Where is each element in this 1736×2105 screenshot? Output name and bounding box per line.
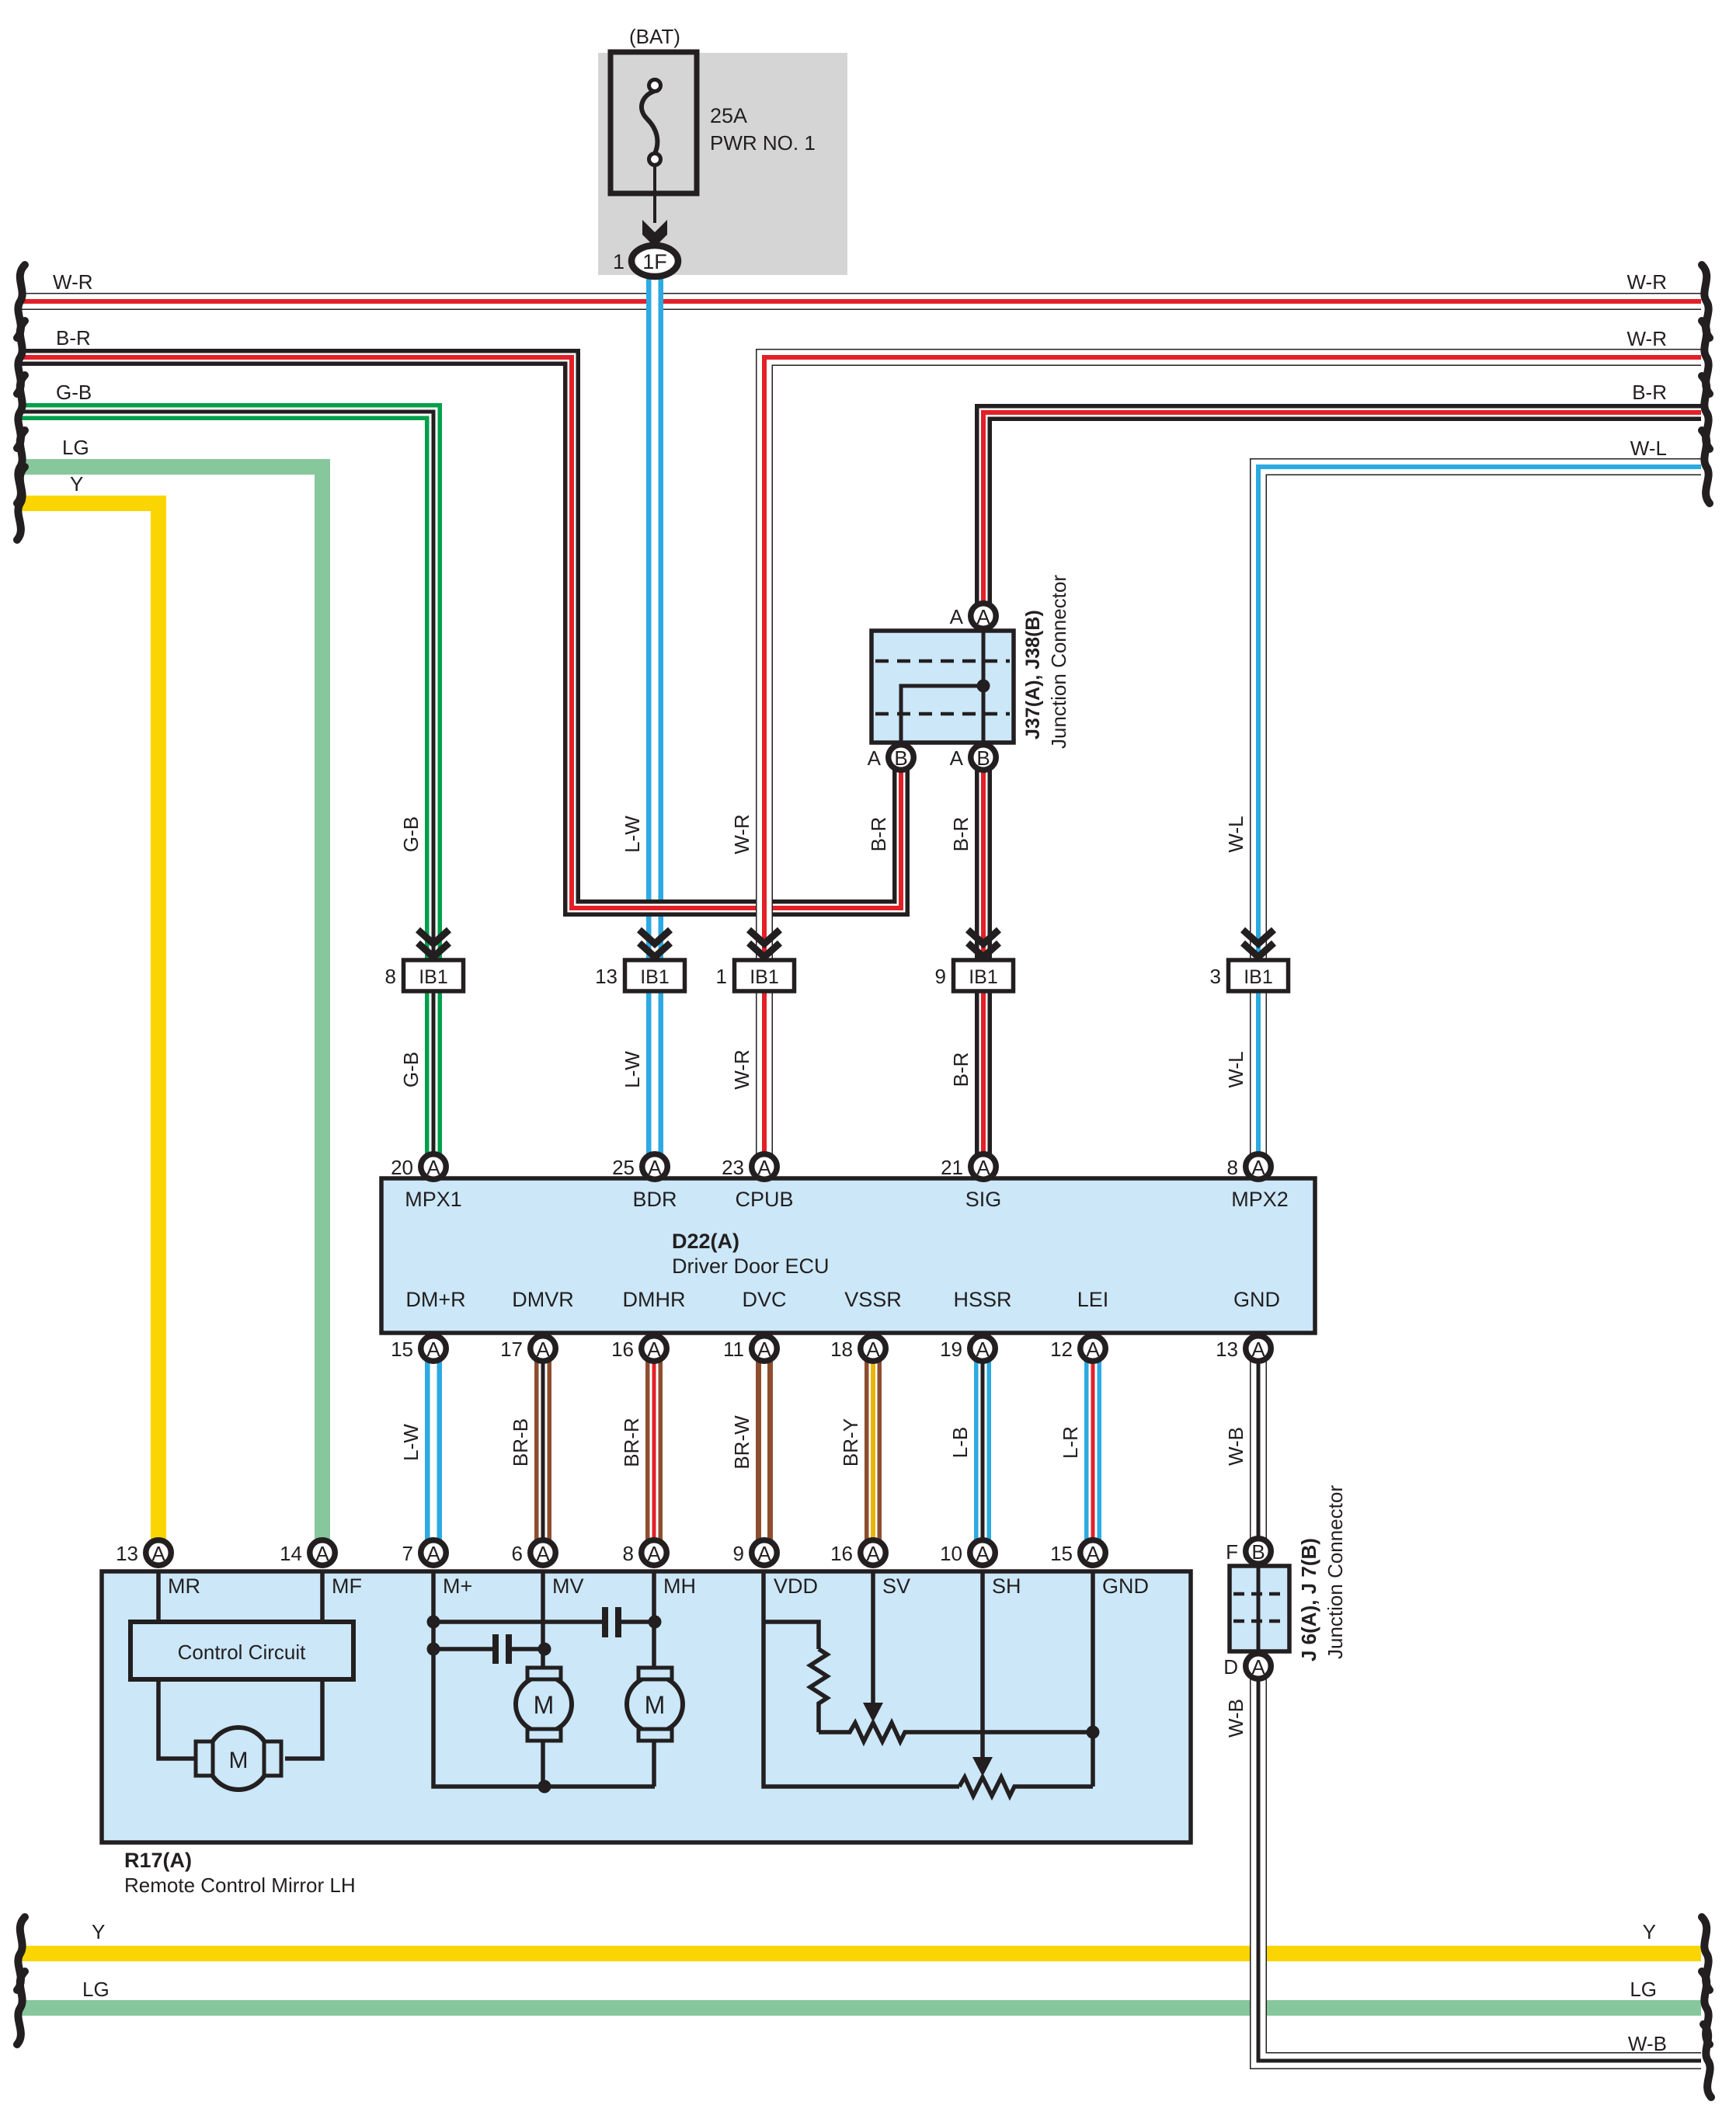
svg-text:9: 9 bbox=[935, 965, 946, 988]
svg-text:HSSR: HSSR bbox=[953, 1288, 1011, 1311]
wire SH with wiper arrow bbox=[972, 1571, 993, 1776]
svg-text:B-R: B-R bbox=[867, 817, 890, 852]
svg-text:B-R: B-R bbox=[949, 1052, 972, 1087]
svg-text:W-L: W-L bbox=[1224, 1051, 1247, 1087]
capacitor C1 (M+ to MH) bbox=[433, 1607, 655, 1637]
wire LG bottom bus bbox=[21, 2000, 1701, 2016]
svg-text:(BAT): (BAT) bbox=[629, 25, 680, 48]
svg-text:MPX2: MPX2 bbox=[1231, 1188, 1289, 1211]
chevron arrow into IB1 at x=1266 bbox=[968, 930, 999, 957]
svg-text:A: A bbox=[536, 1542, 550, 1565]
svg-text:A: A bbox=[1086, 1338, 1100, 1361]
svg-text:MPX1: MPX1 bbox=[405, 1188, 462, 1211]
svg-text:21: 21 bbox=[941, 1156, 963, 1179]
svg-text:A: A bbox=[976, 605, 990, 628]
svg-text:G-B: G-B bbox=[399, 816, 423, 852]
svg-text:25A: 25A bbox=[710, 104, 747, 127]
wire BR-B DMVR pin 17 to MV pin 6 bbox=[534, 1348, 551, 1553]
continuation squiggle bbox=[1702, 1917, 1710, 1990]
svg-text:Y: Y bbox=[70, 472, 83, 496]
wire MF to control circuit bbox=[320, 1571, 325, 1622]
svg-text:L-W: L-W bbox=[621, 816, 644, 853]
svg-text:L-W: L-W bbox=[621, 1051, 644, 1088]
arrow from fuse to connector 1F bbox=[642, 165, 667, 247]
svg-text:16: 16 bbox=[830, 1542, 853, 1565]
svg-text:10: 10 bbox=[940, 1542, 962, 1565]
wire B-R J37 pin B to SIG pin 21 bbox=[975, 757, 992, 1167]
svg-text:8: 8 bbox=[623, 1542, 634, 1565]
continuation squiggle bbox=[1702, 321, 1710, 394]
svg-text:LG: LG bbox=[62, 436, 89, 459]
svg-text:A: A bbox=[1251, 1156, 1265, 1179]
svg-text:A: A bbox=[757, 1338, 771, 1361]
svg-text:1: 1 bbox=[716, 965, 727, 988]
wire BR-R DMHR pin 16 to MH pin 8 bbox=[645, 1348, 663, 1553]
svg-text:MF: MF bbox=[332, 1574, 362, 1598]
wire L-B HSSR pin 19 to SH pin 10 bbox=[974, 1348, 991, 1553]
svg-text:W-R: W-R bbox=[1626, 270, 1667, 294]
svg-text:20: 20 bbox=[391, 1156, 413, 1179]
wire L-W DM+R pin 15 to M+ pin 7 bbox=[425, 1348, 442, 1553]
wire L-R LEI pin 12 to GND pin 15 bbox=[1084, 1348, 1101, 1553]
pin 8 A bbox=[1227, 1154, 1272, 1180]
junction dot bbox=[427, 1643, 440, 1656]
svg-text:A: A bbox=[647, 1338, 661, 1361]
continuation squiggle bbox=[17, 1971, 25, 2044]
power source block background bbox=[598, 53, 847, 275]
pin 15 A bbox=[1050, 1540, 1105, 1566]
wire MH vertical bbox=[652, 1571, 656, 1787]
svg-text:16: 16 bbox=[611, 1338, 634, 1361]
svg-text:A: A bbox=[151, 1542, 165, 1565]
svg-text:13: 13 bbox=[1216, 1338, 1238, 1361]
continuation squiggle bbox=[17, 321, 25, 394]
svg-text:SH: SH bbox=[992, 1574, 1021, 1598]
svg-text:LG: LG bbox=[1630, 1978, 1657, 2001]
svg-text:A: A bbox=[648, 1156, 662, 1179]
svg-text:13: 13 bbox=[116, 1542, 138, 1565]
motor M1 mirror retract bbox=[196, 1727, 281, 1790]
capacitor C2 (M+ to MV) bbox=[433, 1634, 543, 1664]
svg-text:B-R: B-R bbox=[1632, 381, 1667, 404]
connector IB1 pin 1 bbox=[716, 960, 795, 991]
svg-text:A: A bbox=[426, 1338, 440, 1361]
svg-text:W-R: W-R bbox=[1626, 327, 1667, 350]
pin 16 A bbox=[611, 1336, 666, 1362]
svg-text:SV: SV bbox=[882, 1574, 910, 1598]
ECU D22(A) Driver Door ECU box bbox=[381, 1178, 1315, 1333]
continuation squiggle bbox=[1702, 430, 1710, 503]
wire W-L right to MPX2 pin 8 bbox=[1258, 467, 1701, 1167]
svg-text:J 6(A), J 7(B): J 6(A), J 7(B) bbox=[1297, 1538, 1320, 1661]
svg-text:L-W: L-W bbox=[399, 1424, 423, 1461]
wire B-R left to junction connector J37 pin B bbox=[21, 357, 901, 908]
junction dot bbox=[538, 1643, 551, 1656]
svg-text:17: 17 bbox=[500, 1338, 523, 1361]
svg-text:W-L: W-L bbox=[1224, 816, 1247, 852]
svg-text:W-R: W-R bbox=[730, 1049, 753, 1090]
wire G-B left to MPX1 pin 20 bbox=[21, 412, 433, 1167]
svg-text:VSSR: VSSR bbox=[844, 1288, 902, 1311]
wire W-B from J6 pin A to bottom bus bbox=[1258, 1666, 1701, 2061]
svg-text:6: 6 bbox=[512, 1542, 523, 1565]
pin 16 A bbox=[830, 1540, 885, 1566]
svg-text:IB1: IB1 bbox=[1244, 966, 1273, 988]
continuation squiggle bbox=[1702, 265, 1710, 338]
svg-text:A: A bbox=[976, 1338, 990, 1361]
motor M2 mirror vertical bbox=[516, 1668, 572, 1741]
pin 17 A bbox=[500, 1336, 555, 1362]
svg-text:D: D bbox=[1223, 1655, 1238, 1679]
svg-text:15: 15 bbox=[391, 1338, 413, 1361]
svg-text:A: A bbox=[866, 1542, 880, 1565]
svg-text:A: A bbox=[868, 746, 882, 770]
svg-text:LG: LG bbox=[82, 1978, 110, 2001]
pin F B bbox=[1226, 1539, 1271, 1564]
connector IB1 pin 8 bbox=[385, 960, 464, 991]
svg-text:F: F bbox=[1226, 1540, 1238, 1564]
pin 10 A bbox=[940, 1540, 995, 1566]
svg-text:DMVR: DMVR bbox=[512, 1288, 574, 1311]
wire W-B GND pin 13 to J6 pin B bbox=[1250, 1348, 1267, 1551]
svg-text:VDD: VDD bbox=[774, 1574, 818, 1598]
svg-text:BR-R: BR-R bbox=[620, 1418, 643, 1467]
svg-text:A: A bbox=[866, 1338, 880, 1361]
svg-text:IB1: IB1 bbox=[640, 966, 670, 988]
pin 25 A bbox=[612, 1154, 667, 1180]
wire W-R right to CPUB pin 23 bbox=[764, 357, 1701, 1167]
control circuit box bbox=[130, 1622, 353, 1679]
pin A A J37 top bbox=[950, 604, 997, 629]
svg-text:DMHR: DMHR bbox=[623, 1288, 686, 1311]
svg-text:BR-Y: BR-Y bbox=[839, 1418, 862, 1467]
junction connector J6(A), J7(B) box bbox=[1230, 1566, 1289, 1651]
svg-text:A: A bbox=[426, 1542, 440, 1565]
wire GND(R17) vertical bbox=[1091, 1571, 1095, 1787]
svg-text:MR: MR bbox=[168, 1574, 200, 1598]
svg-text:M: M bbox=[229, 1748, 249, 1773]
continuation squiggle bbox=[1702, 376, 1710, 449]
svg-text:M+: M+ bbox=[443, 1574, 472, 1598]
pin 18 A bbox=[830, 1336, 885, 1362]
pin 19 A bbox=[940, 1336, 995, 1362]
svg-text:Junction Connector: Junction Connector bbox=[1324, 1485, 1347, 1659]
wire control circuit to motor M1 left bbox=[158, 1679, 204, 1759]
svg-text:B: B bbox=[976, 746, 990, 770]
pin 12 A bbox=[1050, 1336, 1105, 1362]
svg-text:9: 9 bbox=[733, 1542, 744, 1565]
motor M3 mirror horizontal bbox=[627, 1668, 683, 1741]
svg-text:A: A bbox=[757, 1156, 771, 1179]
svg-text:L-R: L-R bbox=[1059, 1426, 1082, 1459]
svg-text:19: 19 bbox=[940, 1338, 962, 1361]
potentiometer P2 (SH) bbox=[959, 1777, 1093, 1796]
wire BR-Y VSSR pin 18 to SV pin 16 bbox=[865, 1348, 882, 1553]
pin A B J37 bottom left bbox=[868, 745, 914, 771]
svg-text:Y: Y bbox=[92, 1920, 105, 1943]
svg-text:13: 13 bbox=[595, 965, 618, 988]
svg-text:BDR: BDR bbox=[632, 1188, 677, 1211]
chevron arrow into IB1 at x=558 bbox=[418, 930, 449, 957]
svg-text:R17(A): R17(A) bbox=[124, 1849, 192, 1872]
resistor R1 vertical bbox=[810, 1649, 827, 1732]
chevron arrow into IB1 at x=984 bbox=[749, 930, 780, 957]
wire M+ vertical and bottom bus bbox=[433, 1571, 655, 1787]
svg-text:B-R: B-R bbox=[56, 326, 91, 350]
pin 13 A bbox=[1216, 1336, 1271, 1362]
connector 1F bbox=[613, 245, 678, 277]
svg-text:J37(A), J38(B): J37(A), J38(B) bbox=[1022, 610, 1044, 739]
pin 7 A bbox=[402, 1540, 447, 1566]
svg-text:A: A bbox=[1251, 1655, 1265, 1679]
connector IB1 pin 13 bbox=[595, 960, 684, 991]
svg-text:BR-W: BR-W bbox=[730, 1415, 753, 1470]
svg-text:IB1: IB1 bbox=[750, 966, 779, 988]
svg-text:Remote Control Mirror LH: Remote Control Mirror LH bbox=[124, 1874, 356, 1897]
pin 9 A bbox=[733, 1540, 778, 1566]
wire VDD vertical and bottom run bbox=[764, 1571, 959, 1787]
junction dot bbox=[427, 1616, 440, 1629]
svg-text:8: 8 bbox=[1227, 1156, 1238, 1179]
wire L-W from fuse 1F to BDR pin 25 bbox=[646, 275, 663, 1167]
svg-text:3: 3 bbox=[1210, 965, 1221, 988]
svg-text:IB1: IB1 bbox=[969, 966, 998, 988]
junction dot bbox=[1087, 1726, 1100, 1739]
svg-text:18: 18 bbox=[830, 1338, 853, 1361]
svg-text:W-R: W-R bbox=[53, 270, 93, 294]
svg-text:LEI: LEI bbox=[1077, 1288, 1109, 1311]
R17(A) Remote Control Mirror LH box bbox=[102, 1571, 1191, 1842]
continuation squiggle bbox=[1703, 2024, 1711, 2097]
svg-text:A: A bbox=[950, 605, 964, 628]
svg-text:11: 11 bbox=[723, 1338, 744, 1361]
svg-text:GND: GND bbox=[1233, 1288, 1280, 1311]
svg-text:M: M bbox=[645, 1691, 666, 1719]
svg-text:A: A bbox=[976, 1542, 990, 1565]
wire BR-W DVC pin 11 to VDD pin 9 bbox=[756, 1348, 773, 1553]
pin 13 A bbox=[116, 1540, 171, 1566]
svg-text:CPUB: CPUB bbox=[735, 1188, 793, 1211]
pin D A bbox=[1223, 1654, 1271, 1679]
svg-text:DM+R: DM+R bbox=[405, 1288, 465, 1311]
wire VDD branch to resistor bbox=[764, 1622, 819, 1649]
connector IB1 pin 9 bbox=[935, 960, 1014, 991]
svg-text:A: A bbox=[1086, 1542, 1100, 1565]
continuation squiggle bbox=[1702, 1971, 1710, 2044]
continuation squiggle bbox=[17, 430, 25, 503]
svg-text:B: B bbox=[1251, 1540, 1265, 1564]
svg-text:Control Circuit: Control Circuit bbox=[178, 1641, 306, 1664]
svg-text:IB1: IB1 bbox=[419, 966, 448, 988]
wire control circuit to motor M1 right bbox=[285, 1679, 322, 1759]
svg-text:25: 25 bbox=[612, 1156, 635, 1179]
continuation squiggle bbox=[17, 375, 25, 448]
svg-text:15: 15 bbox=[1050, 1542, 1073, 1565]
svg-text:14: 14 bbox=[280, 1542, 302, 1565]
svg-text:Driver Door ECU: Driver Door ECU bbox=[672, 1254, 830, 1278]
pin 23 A bbox=[722, 1154, 777, 1180]
potentiometer P1 (SV) bbox=[819, 1723, 1094, 1741]
svg-text:A: A bbox=[315, 1542, 329, 1565]
wire MV vertical bbox=[541, 1571, 545, 1787]
svg-text:Y: Y bbox=[1643, 1920, 1656, 1943]
svg-text:PWR NO. 1: PWR NO. 1 bbox=[710, 131, 816, 155]
svg-text:M: M bbox=[534, 1691, 555, 1719]
pin 11 A bbox=[723, 1336, 777, 1362]
svg-text:B-R: B-R bbox=[949, 817, 972, 852]
svg-text:1F: 1F bbox=[642, 250, 667, 273]
svg-text:B: B bbox=[894, 746, 907, 770]
continuation squiggle bbox=[17, 1917, 25, 1990]
svg-text:G-B: G-B bbox=[56, 381, 92, 404]
svg-text:W-B: W-B bbox=[1628, 2032, 1667, 2055]
svg-text:BR-B: BR-B bbox=[509, 1418, 532, 1467]
fuse 1F 25A PWR NO. 1 bbox=[611, 52, 697, 193]
svg-text:A: A bbox=[976, 1156, 990, 1179]
svg-text:L-B: L-B bbox=[948, 1427, 972, 1458]
pin 20 A bbox=[391, 1154, 446, 1180]
svg-text:W-B: W-B bbox=[1224, 1699, 1247, 1738]
svg-text:A: A bbox=[647, 1542, 661, 1565]
pin 21 A bbox=[941, 1154, 996, 1180]
wire Y left to MR pin 13 bbox=[21, 503, 158, 1553]
svg-text:W-R: W-R bbox=[730, 814, 753, 854]
svg-text:A: A bbox=[757, 1542, 771, 1565]
pin 15 A bbox=[391, 1336, 446, 1362]
pin 6 A bbox=[512, 1540, 556, 1566]
svg-text:A: A bbox=[536, 1338, 550, 1361]
svg-text:W-L: W-L bbox=[1630, 437, 1667, 460]
svg-text:A: A bbox=[1251, 1338, 1265, 1361]
svg-text:8: 8 bbox=[385, 965, 396, 988]
pin 14 A bbox=[280, 1540, 335, 1566]
wire W-R top bus bbox=[21, 293, 1701, 310]
junction connector J37(A), J38(B) box bbox=[871, 631, 1014, 743]
chevron arrow into IB1 at x=1620 bbox=[1243, 930, 1274, 957]
svg-text:Junction Connector: Junction Connector bbox=[1047, 575, 1070, 749]
wire MR to control circuit bbox=[156, 1571, 161, 1622]
junction dot bbox=[538, 1780, 551, 1794]
svg-text:1: 1 bbox=[613, 250, 624, 273]
svg-text:DVC: DVC bbox=[742, 1288, 786, 1311]
svg-text:SIG: SIG bbox=[965, 1188, 1002, 1211]
wire LG left to MF pin 14 bbox=[21, 467, 322, 1553]
svg-text:MH: MH bbox=[663, 1574, 696, 1598]
svg-text:G-B: G-B bbox=[399, 1052, 423, 1087]
junction dot bbox=[649, 1616, 662, 1629]
svg-text:MV: MV bbox=[552, 1574, 584, 1598]
pin 8 A bbox=[623, 1540, 667, 1566]
pin A B J37 bottom right bbox=[950, 745, 997, 771]
svg-text:A: A bbox=[950, 746, 964, 770]
continuation squiggle bbox=[17, 265, 25, 338]
continuation squiggle bbox=[17, 467, 25, 540]
svg-text:7: 7 bbox=[402, 1542, 413, 1565]
svg-text:23: 23 bbox=[722, 1156, 744, 1179]
chevron arrow into IB1 at x=843 bbox=[639, 930, 670, 957]
wire SV with wiper arrow bbox=[863, 1571, 883, 1722]
svg-text:D22(A): D22(A) bbox=[672, 1230, 739, 1253]
svg-text:W-B: W-B bbox=[1224, 1427, 1247, 1466]
svg-text:GND: GND bbox=[1102, 1574, 1149, 1598]
wire B-R right to J37 pin A bbox=[983, 412, 1701, 616]
wire Y bottom bus bbox=[21, 1946, 1701, 1961]
connector IB1 pin 3 bbox=[1210, 960, 1289, 991]
svg-text:12: 12 bbox=[1050, 1338, 1073, 1361]
svg-text:A: A bbox=[426, 1156, 440, 1179]
